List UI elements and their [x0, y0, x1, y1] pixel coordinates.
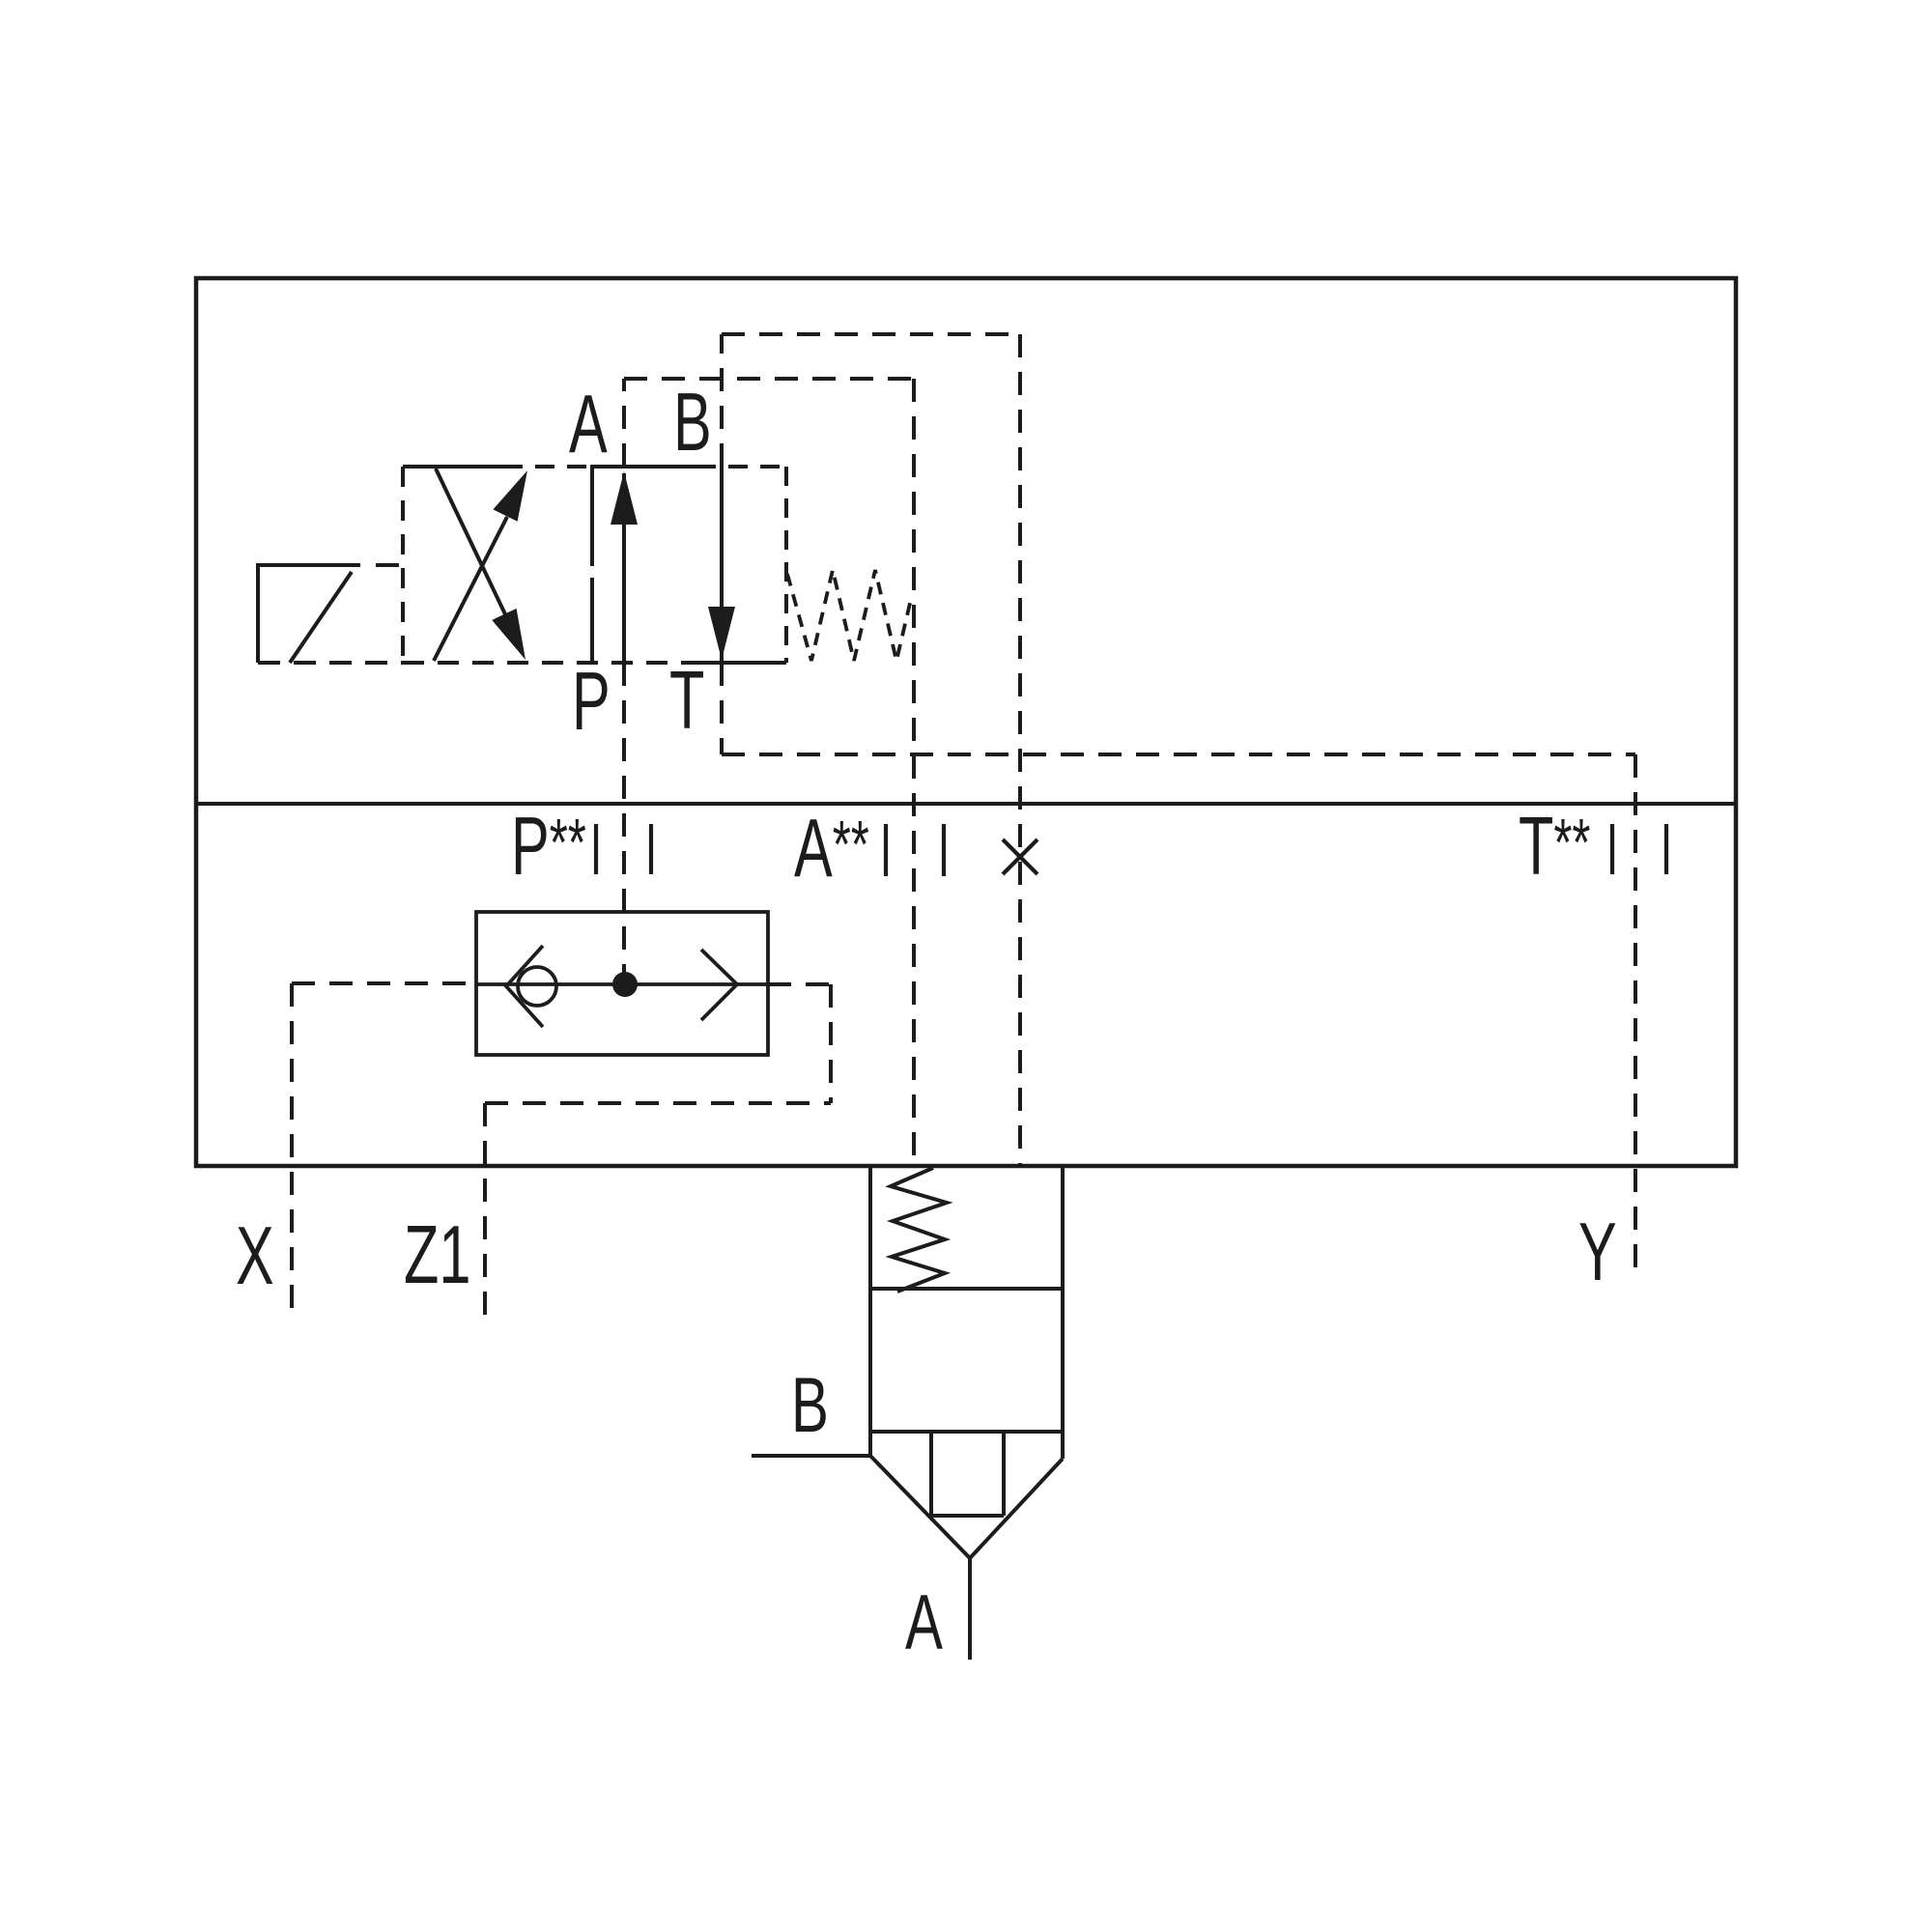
solenoid S1 (proportional solenoid) [258, 565, 403, 663]
wire: check valve right run [768, 982, 831, 986]
wire: port P line down to check valve [622, 663, 626, 978]
svg-text:T: T [669, 655, 704, 747]
check valve CV1 body [476, 912, 768, 1055]
label P (valve port) [572, 656, 611, 748]
wire: dashed top run B to X-plug line [722, 332, 1020, 336]
wire: loop down [829, 984, 833, 1103]
svg-text:A: A [569, 379, 608, 470]
svg-text:X: X [236, 1210, 274, 1302]
P-to-A up arrow (right valve position) [611, 471, 638, 663]
B-to-T down arrow (right valve position) [708, 467, 735, 661]
label X [236, 1210, 274, 1302]
wire: port T line below valve [720, 663, 724, 754]
svg-text:P: P [572, 656, 611, 748]
svg-text:A**: A** [794, 803, 869, 895]
cartridge poppet seat [870, 1432, 1063, 1558]
manifold block outline [196, 278, 1736, 1166]
label Y [1578, 1207, 1617, 1298]
port tick marks P [596, 824, 651, 874]
port tick marks T [1612, 824, 1666, 874]
svg-text:Z1: Z1 [404, 1209, 470, 1301]
wire: port A line above valve [622, 379, 626, 467]
label T** [1519, 801, 1590, 893]
plugged port cross [1003, 839, 1037, 874]
sandwich plate divider line [196, 802, 1736, 806]
wire: Y drain line [1634, 754, 1637, 1276]
wire: pilot line down to cartridge spring chamber [912, 379, 916, 1166]
svg-text:Y: Y [1578, 1207, 1617, 1298]
crossed-flow arrows (left valve position) [434, 469, 527, 661]
wire: Z1 line [483, 1103, 487, 1320]
svg-text:P**: P** [511, 801, 586, 893]
cartridge port B line [752, 1454, 870, 1458]
label P** [511, 801, 586, 893]
wire: loop horizontal to Z1 [485, 1101, 831, 1105]
label A (valve port) [569, 379, 608, 470]
svg-text:A: A [905, 1578, 943, 1666]
wire: check valve left run [292, 981, 476, 985]
svg-text:B: B [673, 377, 712, 469]
label B (cartridge port) [791, 1361, 829, 1449]
label A** [794, 803, 869, 895]
wire: vertical line with plug to bottom [1018, 334, 1022, 1166]
wire: port B line above valve [720, 334, 724, 467]
port tick marks A [886, 824, 944, 876]
valve return spring (dashed zigzag) [787, 570, 912, 661]
svg-text:B: B [791, 1361, 829, 1449]
wire: long T run to the right [722, 753, 1635, 756]
wire: pilot jog horizontal A to spring chamber line [624, 377, 914, 381]
check valve seat [506, 946, 543, 1027]
junction node dot [612, 972, 638, 997]
flow arrowhead to Z1 [701, 950, 737, 1020]
label B (valve port) [673, 377, 712, 469]
label Z1 [404, 1209, 470, 1301]
cartridge spring [891, 1168, 947, 1292]
svg-text:T**: T** [1519, 801, 1590, 893]
cartridge logic valve LC1 body [870, 1166, 1063, 1459]
directional valve U1 body (4/2 pilot valve, dashed) [403, 467, 786, 663]
check valve ball [518, 967, 556, 1006]
check valve centerline [476, 982, 768, 986]
cartridge port A line [968, 1558, 972, 1660]
label T (valve port) [669, 655, 704, 747]
label A (cartridge port) [905, 1578, 943, 1666]
wire: X pilot supply line [290, 983, 294, 1320]
